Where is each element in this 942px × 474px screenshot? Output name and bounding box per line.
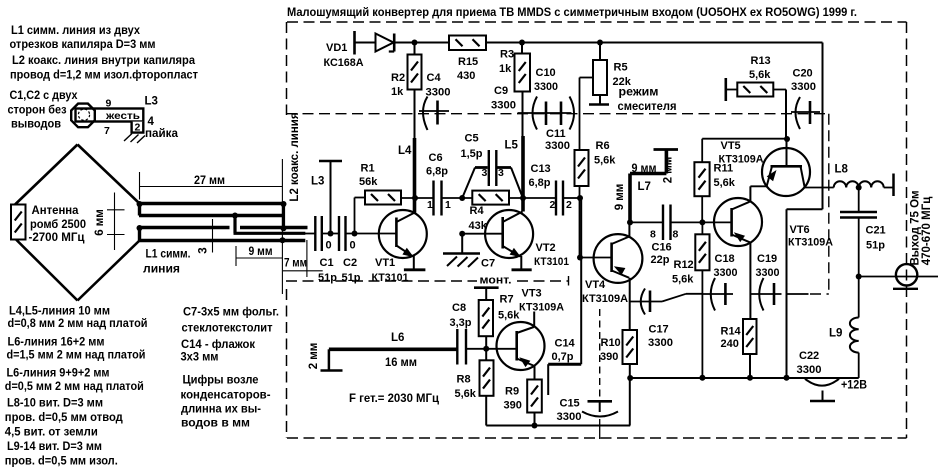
svg-text:51р: 51р (318, 272, 337, 284)
svg-text:VT5: VT5 (721, 140, 741, 152)
svg-text:C18: C18 (715, 253, 735, 265)
svg-text:3300: 3300 (791, 81, 816, 93)
svg-text:6,8р: 6,8р (529, 177, 551, 189)
svg-text:пров. d=0,5 мм изол.: пров. d=0,5 мм изол. (5, 456, 118, 468)
svg-text:C15: C15 (560, 398, 580, 410)
svg-text:2: 2 (566, 199, 572, 211)
svg-text:5,6k: 5,6k (672, 274, 694, 286)
svg-text:51р: 51р (342, 272, 361, 284)
svg-text:R3: R3 (500, 49, 514, 61)
svg-text:4,5 вит. от земли: 4,5 вит. от земли (5, 427, 98, 439)
svg-text:С7-3х5 мм фольг.: С7-3х5 мм фольг. (183, 307, 279, 319)
svg-text:C19: C19 (757, 253, 777, 265)
svg-text:+12В: +12В (841, 380, 867, 392)
svg-text:L4: L4 (398, 145, 412, 157)
svg-text:стеклотекстолит: стеклотекстолит (182, 323, 273, 335)
svg-text:R1: R1 (361, 163, 375, 175)
svg-text:режим: режим (619, 87, 659, 99)
svg-text:3300: 3300 (545, 140, 570, 152)
svg-text:R9: R9 (505, 386, 519, 398)
svg-text:5,6k: 5,6k (594, 155, 616, 167)
svg-text:VT2: VT2 (536, 242, 556, 254)
svg-text:8: 8 (650, 229, 656, 241)
svg-text:L1 симм.: L1 симм. (146, 249, 191, 261)
svg-text:5,6k: 5,6k (749, 69, 771, 81)
svg-text:C6: C6 (429, 152, 443, 164)
svg-text:L9: L9 (829, 328, 842, 340)
svg-text:КТ3101: КТ3101 (534, 256, 569, 268)
svg-text:5,6k: 5,6k (455, 388, 477, 400)
svg-text:L5: L5 (505, 140, 519, 152)
svg-text:VT6: VT6 (790, 224, 810, 236)
svg-text:R8: R8 (457, 374, 471, 386)
svg-text:7: 7 (104, 125, 110, 137)
svg-text:R6: R6 (596, 140, 610, 152)
svg-text:R14: R14 (721, 326, 742, 338)
svg-text:3300: 3300 (756, 267, 780, 279)
svg-text:водов в мм: водов в мм (181, 418, 250, 430)
svg-text:смесителя: смесителя (618, 101, 677, 113)
svg-text:L4,L5-линия 10 мм: L4,L5-линия 10 мм (9, 306, 110, 318)
svg-text:C2: C2 (343, 257, 357, 269)
svg-text:Малошумящий конвертер для прие: Малошумящий конвертер для приема ТВ MMDS… (287, 7, 857, 19)
svg-text:51р: 51р (866, 240, 885, 252)
svg-text:2 мм: 2 мм (663, 157, 675, 184)
svg-text:9 мм: 9 мм (614, 184, 626, 211)
svg-text:1k: 1k (499, 63, 512, 75)
svg-text:L6-линия 16+2 мм: L6-линия 16+2 мм (8, 337, 105, 349)
svg-text:пров. d=0,5 мм отвод: пров. d=0,5 мм отвод (5, 412, 124, 424)
svg-text:КТ3109А: КТ3109А (582, 293, 628, 305)
svg-text:2: 2 (135, 122, 141, 134)
svg-text:пайка: пайка (145, 128, 179, 140)
svg-text:VT3: VT3 (522, 288, 542, 300)
svg-text:провод d=1,2 мм изол.фтороплас: провод d=1,2 мм изол.фторопласт (10, 70, 198, 82)
svg-text:КТ3101: КТ3101 (372, 272, 409, 284)
svg-text:отрезков капиляра D=3 мм: отрезков капиляра D=3 мм (10, 39, 156, 51)
svg-text:27 мм: 27 мм (194, 175, 225, 187)
svg-text:R4: R4 (470, 205, 485, 217)
svg-text:C1: C1 (320, 257, 334, 269)
svg-text:1k: 1k (391, 86, 404, 98)
svg-text:L9-14 вит. D=3 мм: L9-14 вит. D=3 мм (7, 441, 102, 453)
svg-text:9 мм: 9 мм (632, 163, 657, 175)
svg-text:монт.: монт. (480, 275, 512, 287)
svg-text:R7: R7 (500, 294, 514, 306)
svg-text:C10: C10 (536, 67, 556, 79)
svg-text:конденсаторов-: конденсаторов- (181, 390, 271, 402)
svg-text:ромб 2500: ромб 2500 (30, 219, 86, 231)
svg-text:C5: C5 (465, 133, 479, 145)
svg-text:КТ3109А: КТ3109А (788, 237, 833, 249)
svg-text:430: 430 (457, 70, 475, 82)
svg-text:L2 коакс. линия внутри капиляр: L2 коакс. линия внутри капиляра (12, 55, 196, 67)
svg-text:C4: C4 (427, 72, 442, 84)
svg-text:L8: L8 (835, 164, 849, 176)
svg-text:L3: L3 (311, 176, 324, 188)
svg-text:Выход 75 Ом: Выход 75 Ом (910, 190, 922, 265)
svg-text:R12: R12 (674, 259, 694, 271)
svg-text:7 мм: 7 мм (284, 258, 307, 270)
svg-text:d=0,5 мм 2 мм над платой: d=0,5 мм 2 мм над платой (5, 381, 144, 393)
svg-text:C14 - флажок: C14 - флажок (181, 339, 255, 351)
svg-text:2 мм: 2 мм (308, 343, 320, 370)
svg-text:6 мм: 6 мм (94, 209, 106, 236)
svg-text:Цифры возле: Цифры возле (183, 375, 259, 387)
svg-text:56k: 56k (359, 176, 378, 188)
svg-text:0: 0 (350, 240, 356, 252)
svg-text:L6: L6 (391, 332, 404, 344)
svg-text:КТ3109А: КТ3109А (719, 154, 764, 166)
svg-text:d=0,8 мм 2 мм над платой: d=0,8 мм 2 мм над платой (8, 318, 148, 330)
svg-text:КС168А: КС168А (324, 57, 364, 69)
svg-text:3300: 3300 (426, 87, 451, 99)
svg-text:C11: C11 (546, 128, 566, 140)
svg-text:L1 симм. линия из двух: L1 симм. линия из двух (11, 25, 141, 37)
svg-text:3: 3 (482, 167, 488, 179)
svg-text:5,6k: 5,6k (498, 310, 520, 322)
svg-text:390: 390 (600, 351, 618, 363)
svg-text:сторон без: сторон без (8, 105, 67, 117)
svg-text:C21: C21 (866, 225, 886, 237)
svg-text:L7: L7 (638, 181, 651, 193)
svg-text:9 мм: 9 мм (249, 246, 273, 258)
svg-text:C8: C8 (452, 302, 466, 314)
svg-text:1: 1 (445, 199, 451, 211)
svg-text:3300: 3300 (557, 411, 582, 423)
svg-text:жесть: жесть (105, 110, 141, 122)
svg-text:3300: 3300 (797, 364, 822, 376)
svg-text:C9: C9 (494, 85, 508, 97)
svg-text:6,8р: 6,8р (426, 166, 448, 178)
svg-text:C16: C16 (652, 242, 672, 254)
svg-text:R2: R2 (391, 72, 405, 84)
svg-text:R13: R13 (751, 55, 771, 67)
svg-text:3300: 3300 (491, 100, 516, 112)
svg-text:VD1: VD1 (326, 42, 347, 54)
svg-text:0: 0 (326, 240, 332, 252)
svg-text:VT4: VT4 (585, 279, 606, 291)
svg-text:линия: линия (143, 264, 180, 276)
svg-text:0,7р: 0,7р (552, 351, 574, 363)
svg-text:C7: C7 (481, 258, 495, 270)
svg-text:L3: L3 (145, 96, 158, 108)
svg-text:VT1: VT1 (375, 257, 395, 269)
svg-text:3300: 3300 (714, 267, 738, 279)
svg-text:C22: C22 (799, 350, 819, 362)
svg-text:C17: C17 (649, 324, 669, 336)
svg-text:L6-линия 9+9+2 мм: L6-линия 9+9+2 мм (7, 368, 110, 380)
svg-text:390: 390 (504, 400, 522, 412)
svg-text:С1,С2 с двух: С1,С2 с двух (10, 90, 79, 102)
svg-text:3300: 3300 (648, 337, 673, 349)
svg-text:470-670 МГц: 470-670 МГц (921, 197, 933, 266)
svg-text:3х3 мм: 3х3 мм (181, 352, 219, 364)
svg-text:R10: R10 (601, 337, 621, 349)
svg-text:F гет.= 2030 МГц: F гет.= 2030 МГц (349, 393, 439, 405)
svg-text:9: 9 (106, 98, 112, 110)
svg-text:длинна их вы-: длинна их вы- (181, 404, 261, 416)
svg-text:выводов: выводов (11, 119, 61, 131)
svg-text:L8-10 вит. D=3 мм: L8-10 вит. D=3 мм (7, 398, 103, 410)
svg-text:Антенна: Антенна (32, 205, 80, 217)
svg-text:КТ3109А: КТ3109А (519, 302, 564, 314)
svg-text:C13: C13 (531, 163, 551, 175)
svg-text:-2700 МГц: -2700 МГц (29, 232, 85, 244)
svg-text:5,6k: 5,6k (714, 177, 736, 189)
svg-text:3300: 3300 (534, 81, 558, 93)
svg-text:22р: 22р (651, 254, 670, 266)
svg-text:3: 3 (498, 167, 504, 179)
svg-text:8: 8 (673, 229, 679, 241)
svg-text:R5: R5 (614, 62, 628, 74)
svg-text:4: 4 (148, 116, 155, 128)
svg-text:C14: C14 (555, 338, 576, 350)
svg-text:d=1,5 мм 2 мм над платой: d=1,5 мм 2 мм над платой (7, 350, 146, 362)
svg-text:3,3р: 3,3р (450, 317, 472, 329)
svg-text:L2 коакс. линия: L2 коакс. линия (289, 112, 301, 201)
svg-text:240: 240 (721, 338, 739, 350)
svg-text:C20: C20 (793, 68, 813, 80)
svg-text:1: 1 (427, 199, 433, 211)
svg-text:16 мм: 16 мм (385, 357, 417, 369)
svg-text:3: 3 (198, 247, 210, 253)
svg-text:2: 2 (550, 199, 556, 211)
svg-text:R15: R15 (458, 56, 478, 68)
svg-text:1,5р: 1,5р (461, 148, 483, 160)
